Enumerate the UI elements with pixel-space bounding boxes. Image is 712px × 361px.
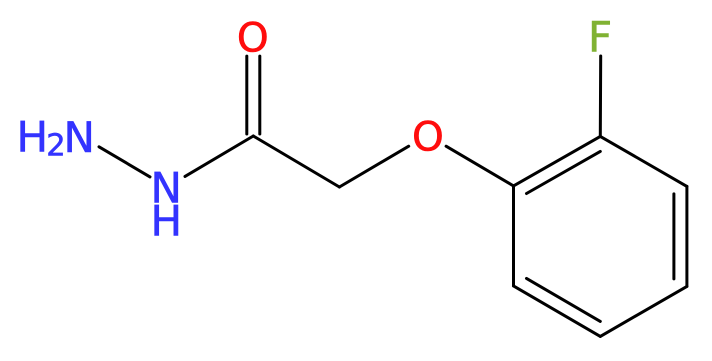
svg-text:O: O <box>412 113 444 161</box>
svg-text:F: F <box>588 13 612 62</box>
svg-text:H: H <box>151 197 183 246</box>
svg-text:O: O <box>237 14 269 62</box>
svg-text:N: N <box>64 113 95 162</box>
svg-text:H: H <box>17 113 49 162</box>
